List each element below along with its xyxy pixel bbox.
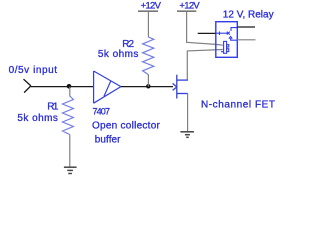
svg-text:N-channel FET: N-channel FET	[201, 100, 276, 111]
svg-text:12 V, Relay: 12 V, Relay	[223, 10, 274, 21]
wire relay coil bottom to FET drain	[187, 50, 223, 81]
op-amp buffer U1 7407 triangle	[94, 71, 121, 103]
svg-text:5k ohms: 5k ohms	[17, 113, 58, 124]
relay NO throw	[231, 28, 237, 31]
node input terminal X	[24, 79, 31, 93]
FET gate arrow	[173, 83, 177, 90]
wire +12V to R2	[147, 11, 149, 37]
FET source tap	[177, 93, 188, 95]
svg-text:7407: 7407	[93, 107, 110, 117]
relay K1 box	[216, 22, 238, 58]
FET drain tap	[177, 79, 188, 81]
resistor R2	[143, 37, 154, 75]
svg-text:+12V: +12V	[179, 0, 200, 11]
svg-text:+12V: +12V	[141, 0, 162, 11]
wire input to buffer	[31, 86, 94, 88]
relay contact pivot tick	[219, 32, 221, 36]
wire R1 bottom stem	[69, 135, 71, 168]
ground under R1	[64, 167, 77, 173]
resistor R1	[63, 96, 74, 135]
svg-text:0/5v input: 0/5v input	[9, 65, 58, 76]
relay contact x marker	[227, 32, 230, 35]
relay coil	[224, 41, 227, 53]
node junction dot R2	[146, 84, 151, 89]
svg-text:5k ohms: 5k ohms	[98, 49, 139, 60]
wire R1 top stem	[69, 87, 71, 97]
svg-text:buffer: buffer	[95, 134, 121, 145]
transistor Q1 N-channel FET	[173, 75, 188, 99]
FET channel bar	[176, 75, 178, 99]
ground under FET source	[180, 132, 194, 138]
relay common contact line	[216, 28, 238, 54]
node junction dot R1	[67, 84, 72, 89]
wire R2 bottom stem	[147, 75, 149, 87]
svg-text:Open collector: Open collector	[92, 121, 161, 132]
wire relay NO output	[237, 26, 255, 28]
wire relay NC output	[237, 39, 255, 41]
relay NC throw arrow	[229, 36, 237, 40]
wire relay common stub	[198, 32, 216, 34]
wire FET source to ground	[187, 94, 189, 132]
wire +12V down to relay coil top	[187, 11, 223, 45]
wire buffer output to FET gate	[121, 86, 173, 88]
svg-text:R1: R1	[47, 102, 59, 113]
